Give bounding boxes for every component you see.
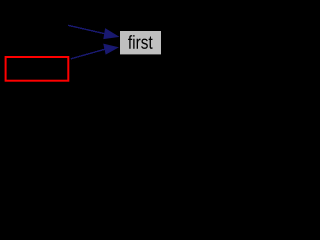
node first: [120, 31, 161, 54]
background: [0, 0, 171, 88]
wire edge1: [68, 25, 105, 33]
arrowhead edge2: [104, 44, 118, 54]
node U2 (truncated, red outline): [6, 57, 69, 81]
arrowhead edge1: [104, 29, 118, 39]
wire edge2: [71, 49, 105, 59]
